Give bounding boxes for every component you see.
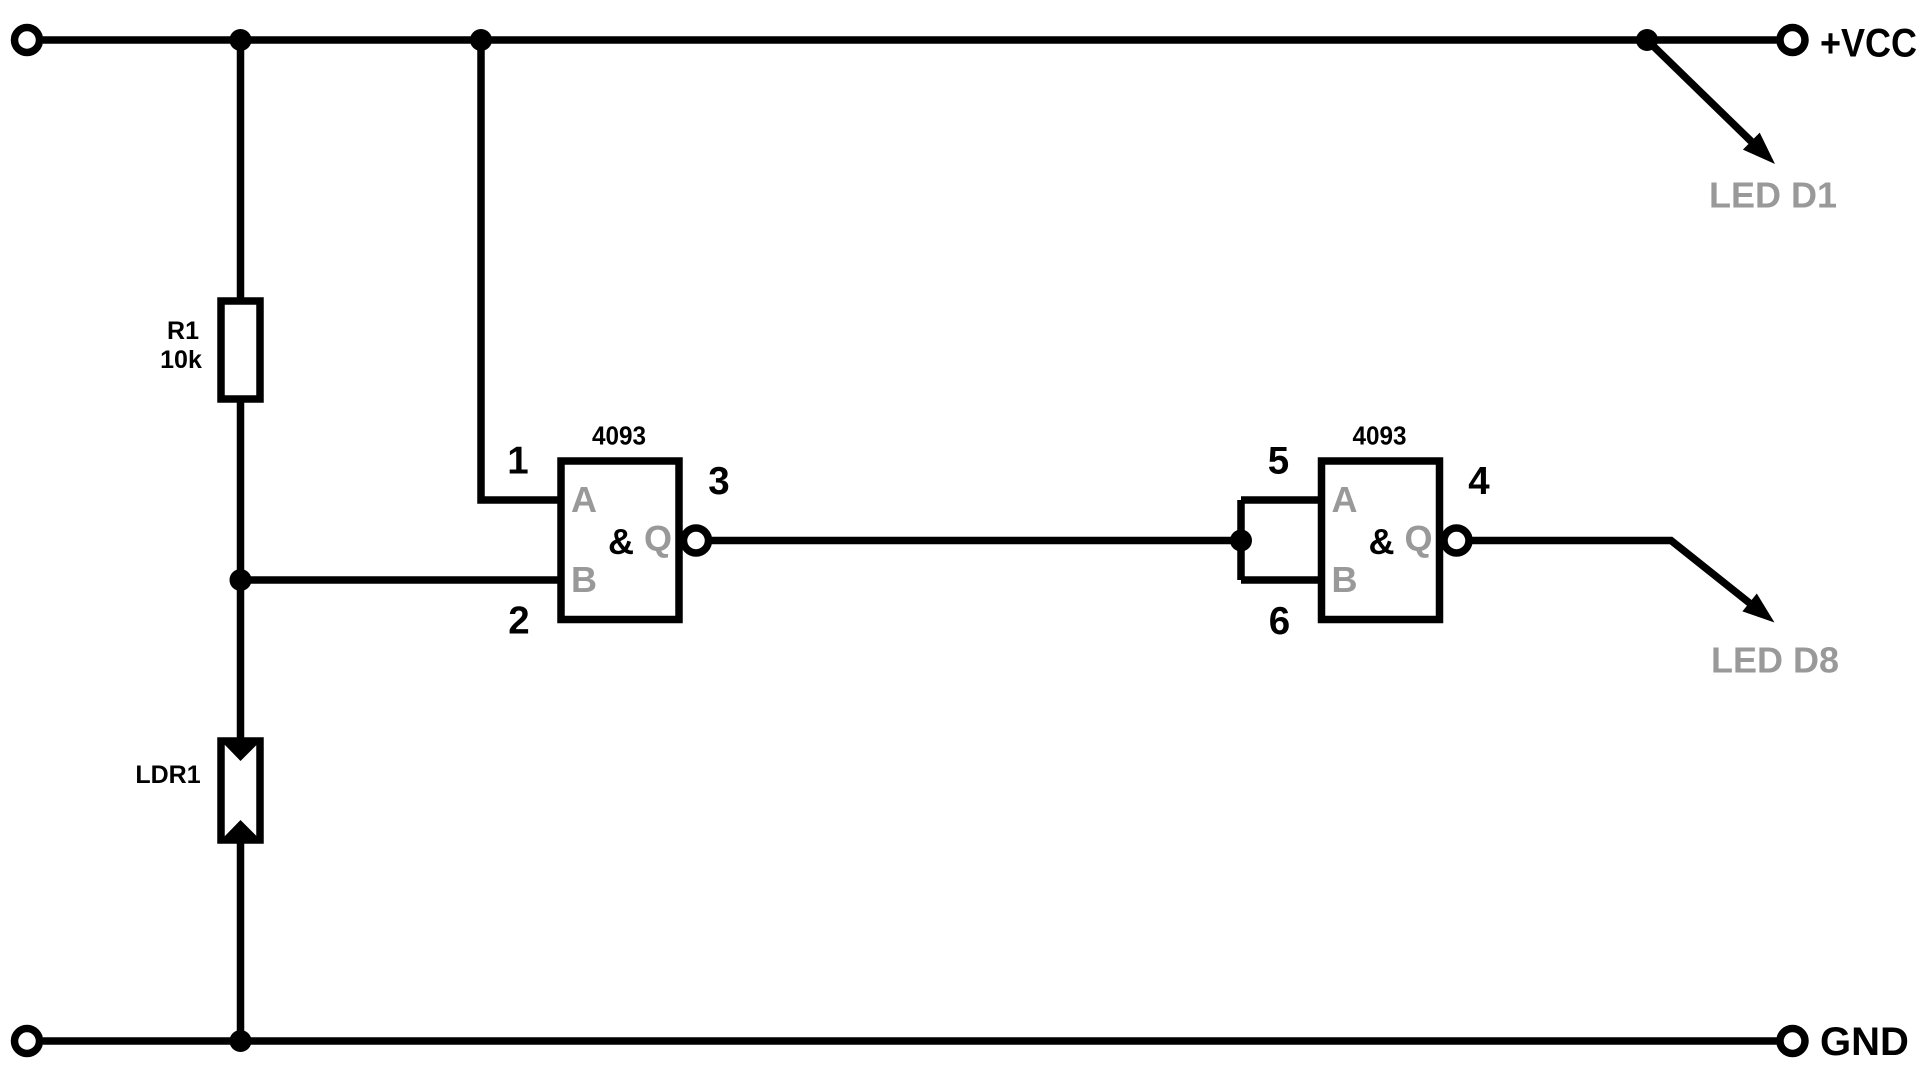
svg-text:GND: GND (1820, 1020, 1909, 1064)
svg-text:3: 3 (708, 460, 729, 503)
svg-text:4093: 4093 (592, 421, 646, 451)
LDR LDR1 (221, 741, 260, 840)
svg-text:4093: 4093 (1353, 421, 1407, 451)
svg-text:2: 2 (508, 600, 529, 643)
svg-text:5: 5 (1268, 440, 1289, 483)
svg-text:&: & (1369, 521, 1395, 562)
wire gate 2 output to LED D8 arrow (1460, 541, 1752, 606)
svg-text:A: A (571, 479, 597, 520)
wire gate 2 input B stub (1241, 576, 1321, 584)
terminal +VCC right (1780, 28, 1805, 53)
wire gate 2 input A stub (1241, 496, 1321, 504)
svg-text:R1: R1 (167, 317, 199, 345)
terminal GND left (15, 1029, 40, 1054)
inversion bubble gate 1 (684, 528, 709, 553)
svg-text:LDR1: LDR1 (135, 761, 200, 789)
svg-text:B: B (1332, 559, 1358, 600)
wire gate 1 output to gate 2 (698, 537, 1241, 545)
terminal +VCC left (15, 28, 40, 53)
junction node gate 1 output / gate 2 inputs (1230, 530, 1252, 552)
wire gate 2 input split vertical (1237, 500, 1245, 580)
junction node top rail / gate 1 A (470, 29, 492, 51)
wire LED D1 arrow from +VCC rail (1647, 40, 1757, 147)
terminal GND right (1780, 1029, 1805, 1054)
junction node top rail / R1 (230, 29, 252, 51)
svg-text:1: 1 (507, 440, 528, 483)
svg-text:Q: Q (1404, 518, 1432, 559)
wire R1/LDR branch (x=240) (237, 40, 245, 1041)
svg-text:A: A (1332, 479, 1358, 520)
svg-text:6: 6 (1269, 600, 1290, 643)
svg-text:LED D1: LED D1 (1709, 175, 1837, 216)
svg-text:B: B (571, 559, 597, 600)
wire GND bottom rail (43, 1037, 1777, 1045)
svg-text:10k: 10k (160, 346, 202, 374)
junction node GND rail / LDR (230, 1030, 252, 1052)
svg-text:4: 4 (1468, 460, 1490, 503)
junction node top rail / LED D1 (1636, 29, 1658, 51)
arrowhead LED D8 (1742, 594, 1774, 623)
svg-text:Q: Q (644, 518, 672, 559)
junction node R1-LDR / gate 1 B (230, 569, 252, 591)
wire branch to gate 1 input A (481, 40, 561, 500)
svg-text:&: & (608, 521, 634, 562)
svg-text:LED D8: LED D8 (1711, 640, 1839, 681)
NAND gate U1 (4093) (561, 461, 679, 620)
wire +VCC top rail (43, 36, 1777, 44)
svg-text:+VCC: +VCC (1820, 22, 1917, 66)
arrowhead LED D1 (1743, 133, 1775, 164)
wire to gate 1 input B (240, 576, 561, 584)
NAND gate U2 (4093) (1322, 461, 1440, 620)
inversion bubble gate 2 (1444, 528, 1469, 553)
resistor R1 (221, 301, 260, 399)
